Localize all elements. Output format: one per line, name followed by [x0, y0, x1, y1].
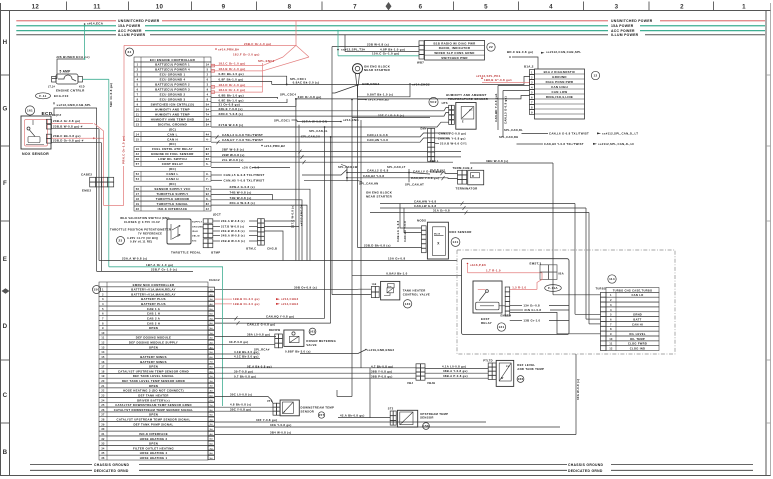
svg-text:3#: 3# [210, 342, 214, 344]
svg-text:SPL,CAN,HT: SPL,CAN,HT [405, 183, 424, 187]
svg-text:30F Y-0.8 gu): 30F Y-0.8 gu) [256, 418, 277, 422]
svg-text:CATALYST DOWNSTREAM TEMP SENSO: CATALYST DOWNSTREAM TEMP SENSOR GRND [115, 403, 192, 407]
svg-text:SPL,CAN,HN: SPL,CAN,HN [359, 182, 378, 186]
svg-text:WIRED SLP CONS GRND: WIRED SLP CONS GRND [434, 51, 474, 55]
svg-text:18J.D Or-1.0 gu): 18J.D Or-1.0 gu) [219, 83, 246, 87]
svg-text:B1A 2 DIAGNOSTIC: B1A 2 DIAGNOSTIC [544, 70, 576, 74]
svg-text:7: 7 [137, 94, 139, 97]
wire CAN.HW Y-0.8 [380, 203, 575, 205]
svg-text:TURBO: TURBO [596, 286, 607, 290]
svg-text:OPEN: OPEN [149, 413, 158, 417]
svg-text:19B.B Or-2.0 gu): 19B.B Or-2.0 gu) [233, 302, 260, 306]
svg-text:24B.B W-0.8 (s): 24B.B W-0.8 (s) [221, 239, 245, 243]
wire 29W W-0.8 [211, 156, 461, 158]
svg-text:F-11A: F-11A [548, 286, 558, 290]
svg-text:5#: 5# [210, 439, 214, 441]
wire relay pin to turbo oil level [510, 312, 601, 333]
svg-text:2#: 2# [210, 381, 214, 383]
ECD internal circuit [25, 120, 48, 147]
wire 23B W-0.8 to radio [332, 46, 419, 48]
svg-text:2#: 2# [210, 294, 214, 296]
svg-text:(DC): (DC) [169, 167, 176, 171]
svg-text:SPL,CAN,LW: SPL,CAN,LW [338, 165, 358, 169]
svg-text:18J.E Or-1.0 gu): 18J.E Or-1.0 gu) [219, 88, 246, 92]
svg-text:B: B [3, 449, 8, 456]
svg-text:32: 32 [101, 438, 105, 441]
svg-text:EXST: EXST [481, 317, 490, 321]
wire CAN.HD Y-0.8 rotated label [497, 86, 499, 131]
svg-text:6: 6 [137, 89, 139, 92]
svg-text:10: 10 [156, 4, 164, 11]
svg-text:6#: 6# [210, 357, 214, 359]
svg-text:16: 16 [136, 148, 140, 151]
svg-text:4: 4 [549, 4, 553, 11]
svg-text:CLOSES @ 0.75V ±0.3V: CLOSES @ 0.75V ±0.3V [124, 220, 160, 224]
svg-text:0.8AU Bk-1.0: 0.8AU Bk-1.0 [386, 272, 407, 276]
svg-text:CAB 2 A: CAB 2 A [147, 316, 160, 320]
svg-text:SPL,RCA#: SPL,RCA# [254, 347, 270, 351]
svg-text:8#: 8# [210, 366, 214, 368]
svg-text:23: 23 [101, 394, 105, 397]
svg-text:9#: 9# [210, 328, 214, 330]
svg-text:SIG: SIG [192, 241, 197, 243]
svg-text:5#: 5# [206, 108, 210, 111]
svg-text:22: 22 [489, 45, 493, 49]
svg-text:BATTERY+V1A,MAIN,RELAY: BATTERY+V1A,MAIN,RELAY [131, 288, 176, 292]
table B1B radio w/ diag pwr ref 22 [425, 40, 485, 60]
ground splice wire ss#12,GND,CAB,SPL [54, 108, 97, 177]
svg-text:5C2: 5C2 [430, 100, 436, 104]
svg-text:OPEN: OPEN [149, 326, 158, 330]
svg-text:UNSWITCHED POWER: UNSWITCHED POWER [118, 19, 160, 23]
svg-text:HOSE HEATING 2: HOSE HEATING 2 [140, 437, 168, 441]
svg-text:4.8 Bk-0.8 (s): 4.8 Bk-0.8 (s) [230, 402, 251, 406]
svg-text:UNSWITCHED POWER: UNSWITCHED POWER [611, 19, 653, 23]
svg-text:PH: PH [506, 366, 510, 368]
wire 26G.A W-0.8 [211, 205, 307, 260]
svg-text:CAB 1 A: CAB 1 A [147, 307, 160, 311]
svg-text:B1B RADIO W/ DIAG PWR: B1B RADIO W/ DIAG PWR [433, 41, 476, 45]
svg-text:BD.C Bk-0.8 gu): BD.C Bk-0.8 gu) [507, 50, 533, 54]
svg-text:15: 15 [136, 138, 140, 141]
splice label s#14.ECA [84, 23, 86, 25]
svg-text:SPL,ENC2: SPL,ENC2 [258, 59, 275, 63]
svg-text:BATT(ECU) POWER 3: BATT(ECU) POWER 3 [155, 88, 190, 92]
wire vertical x370 from 0E.A line down to 42.A [369, 368, 371, 418]
wire CAN.H2 Y-0.8 [347, 177, 430, 179]
svg-text:SENSOR: SENSOR [301, 409, 315, 413]
svg-text:CATALYST UPSTREAM TEMP SENSOR: CATALYST UPSTREAM TEMP SENSOR SIGNAL [117, 418, 191, 422]
svg-text:57: 57 [136, 163, 140, 166]
svg-text:29: 29 [101, 423, 105, 426]
svg-text:5#: 5# [210, 352, 214, 354]
svg-text:7: 7 [353, 4, 357, 11]
svg-text:CAN2 H: CAN2 H [166, 177, 179, 181]
svg-text:CAN HIGH: CAN HIGH [551, 85, 568, 89]
svg-text:18J.F Or-2.0 gu): 18J.F Or-2.0 gu) [233, 53, 260, 57]
svg-text:VBJ: VBJ [407, 381, 413, 385]
svg-text:4#: 4# [210, 303, 214, 306]
svg-text:15A POWER: 15A POWER [611, 24, 634, 28]
svg-text:11: 11 [136, 113, 140, 116]
wire CAN.LV G-0.8 [409, 173, 430, 175]
svg-text:AND TANK TEMP: AND TANK TEMP [517, 367, 544, 371]
svg-text:ILLUM POWER: ILLUM POWER [611, 33, 639, 37]
teal wire vertical at EMR2 right [222, 267, 224, 406]
svg-text:SPL,CAN,3L: SPL,CAN,3L [309, 129, 328, 133]
wire 4.8 Bk-0.8 [215, 406, 274, 408]
wire terminator feeds [430, 172, 458, 174]
dashed harness enclosure box [457, 250, 675, 354]
svg-text:9#: 9# [210, 415, 214, 417]
svg-text:8#: 8# [206, 203, 210, 206]
svg-text:CAN.HQ Y-0.8 gu): CAN.HQ Y-0.8 gu) [266, 314, 294, 318]
svg-text:2: 2 [680, 4, 684, 11]
svg-text:s#14,CHG2: s#14,CHG2 [281, 297, 299, 301]
svg-text:5#: 5# [210, 395, 214, 397]
svg-text:s#14,CHG2: s#14,CHG2 [281, 302, 299, 306]
svg-text:74B W-0.8 (s): 74B W-0.8 (s) [230, 196, 252, 200]
svg-text:OIL TEMP: OIL TEMP [630, 337, 645, 341]
svg-text:7#: 7# [210, 405, 214, 407]
svg-text:8#: 8# [206, 148, 210, 151]
svg-text:FUEL CNTRL ATR RELAY: FUEL CNTRL ATR RELAY [152, 147, 193, 151]
svg-text:IDLE VALIDATION SWITCH (ENG: IDLE VALIDATION SWITCH (ENG [120, 216, 170, 220]
wire 23B.D Bk-0.8 to NOx sensor 2 [358, 247, 422, 249]
left center diamond marker [2, 288, 10, 294]
wire CAN.H5 link to splice mesh [304, 180, 362, 182]
svg-text:THROTTLE PEDAL: THROTTLE PEDAL [171, 250, 201, 254]
svg-text:HTS: HTS [442, 101, 448, 105]
svg-text:19: 19 [136, 203, 140, 206]
svg-text:ISO-K INTERFACE: ISO-K INTERFACE [139, 432, 168, 436]
svg-text:9: 9 [137, 103, 139, 106]
wire 0.8AU Bk-1.0 [352, 275, 462, 277]
svg-text:0E.A Bk-0.8 gu): 0E.A Bk-0.8 gu) [247, 364, 272, 368]
inner solid enclosure box [462, 259, 570, 335]
wire 13B Gr-1.0 [510, 320, 522, 322]
svg-text:5#: 5# [206, 103, 210, 106]
table turbo charge case ref 114 [608, 275, 616, 283]
svg-text:CAN,HW Y-0.8: CAN,HW Y-0.8 [414, 200, 436, 204]
relay EXST ref 121 [473, 281, 502, 313]
wires VBJ to DEF level sensor [425, 367, 488, 369]
connector BTM.C / CHG.B [258, 219, 261, 223]
svg-text:CAN.HU Y-0.8: CAN.HU Y-0.8 [403, 221, 407, 242]
svg-text:TB6,L: TB6,L [430, 159, 439, 163]
wire 4.1B Bk-2.0 [215, 353, 261, 355]
svg-text:CAN.HD Y-0.8 gu1: CAN.HD Y-0.8 gu1 [494, 93, 498, 122]
svg-text:ss#12,SPL,T3#: ss#12,SPL,T3# [341, 48, 365, 52]
svg-text:F1(F#: F1(F# [52, 113, 62, 117]
svg-text:30-T-0.8 gu): 30-T-0.8 gu) [234, 369, 253, 373]
svg-text:27: 27 [101, 414, 105, 417]
svg-text:EMST,4: EMST,4 [501, 314, 512, 318]
svg-text:1B7.A Or-1.0 gu): 1B7.A Or-1.0 gu) [146, 263, 173, 267]
svg-text:23B.A Gr-0.8 gu): 23B.A Gr-0.8 gu) [53, 119, 80, 123]
wire CAN.H6 Y-0.8 TXL/TWIST [517, 143, 544, 145]
svg-text:8#: 8# [210, 453, 214, 455]
svg-text:3: 3 [137, 74, 139, 77]
wire 23B.D Or-0.8 [52, 142, 102, 144]
wire 0.8E Bk-1.0 [211, 99, 287, 103]
wire CAN drops to NOx sensor 2 [400, 204, 422, 229]
svg-text:9: 9 [222, 4, 226, 11]
wires throttle pedal to connector BTM.C/CHG.B [213, 220, 220, 222]
svg-text:OPEN: OPEN [149, 345, 158, 349]
component EMR2 NOx controller ref 150 [93, 286, 101, 294]
svg-text:CAN.L3 G-0.8 gu): CAN.L3 G-0.8 gu) [504, 96, 508, 124]
svg-text:C: C [3, 392, 8, 399]
svg-text:VALID: VALID [192, 235, 200, 238]
svg-text:H: H [3, 39, 8, 46]
svg-text:IDLE: IDLE [192, 231, 198, 233]
svg-text:23B.C Bk-0.8 gu): 23B.C Bk-0.8 gu) [53, 134, 81, 138]
svg-text:DEF DOSING MODULE SUPPLY: DEF DOSING MODULE SUPPLY [129, 341, 178, 345]
svg-text:CAN,LG G-0.8 gu): CAN,LG G-0.8 gu) [247, 322, 275, 326]
svg-text:BATTERY MINUS: BATTERY MINUS [140, 360, 167, 364]
wire 22B.F Gr-1.0 [97, 270, 193, 272]
svg-text:28: 28 [101, 419, 105, 422]
svg-text:4: 4 [207, 94, 209, 97]
wire CAN.L5 link to splice mesh [302, 170, 347, 176]
svg-text:8: 8 [288, 4, 292, 11]
fuse reference oval F-11 [36, 93, 51, 99]
svg-text:163: 163 [310, 330, 316, 334]
sensor humidity and ambient temperature ref 5C2 [429, 97, 438, 106]
svg-text:D: D [3, 323, 8, 330]
wire vertical x324.6 down to EMR2 CAN.HD [324, 127, 326, 318]
svg-text:VT3: VT3 [267, 399, 273, 403]
svg-text:38B.A Y-0.8 gu): 38B.A Y-0.8 gu) [443, 369, 468, 373]
svg-text:HUMIDITY AND TEMP: HUMIDITY AND TEMP [155, 107, 190, 111]
svg-text:2: 2 [207, 74, 209, 77]
svg-text:9: 9 [207, 89, 209, 92]
svg-text:LT,J#: LT,J# [48, 86, 56, 89]
wire s#14,PRN,B2 splice stub [358, 99, 367, 101]
wire 42.A Bk-0.8 to upstream sensor [338, 417, 390, 419]
top center diamond marker [386, 2, 392, 10]
svg-text:4#: 4# [210, 433, 214, 436]
svg-text:30C Y-0.8 gu): 30C Y-0.8 gu) [230, 407, 251, 411]
svg-text:7#: 7# [206, 188, 210, 191]
svg-text:CAN,H6 Y-0.8 TXL/TWIST: CAN,H6 Y-0.8 TXL/TWIST [544, 142, 584, 146]
svg-text:25: 25 [101, 404, 105, 407]
svg-text:DEF TANK LEVEL SIGNAL: DEF TANK LEVEL SIGNAL [133, 374, 174, 378]
svg-text:GROUND: GROUND [552, 75, 567, 79]
svg-text:SPL,CAN,3H: SPL,CAN,3H [301, 134, 320, 138]
svg-text:158: 158 [423, 424, 429, 428]
svg-text:18J.B Or-1.0 gu): 18J.B Or-1.0 gu) [219, 67, 246, 71]
svg-text:30: 30 [101, 428, 105, 431]
svg-text:FILTER OUTLET HEATING: FILTER OUTLET HEATING [133, 446, 174, 450]
svg-text:SENSOR SUPPLY VCC: SENSOR SUPPLY VCC [154, 187, 191, 191]
svg-text:31N Gr-0.8: 31N Gr-0.8 [524, 308, 541, 312]
wire 15A.C Gr-1.0 to radio (from ACC bus, teal) [337, 31, 339, 56]
svg-text:CATALYST UPSTREAM TEMP SENSOR: CATALYST UPSTREAM TEMP SENSOR GRND [118, 369, 189, 373]
svg-text:7-: 7- [206, 178, 209, 181]
wire s3A Gr-0.8 [211, 167, 240, 169]
svg-text:4.1C Bk-2.0 gu): 4.1C Bk-2.0 gu) [234, 355, 259, 359]
svg-text:4.7 Bk-0.8 gu): 4.7 Bk-0.8 gu) [371, 364, 393, 368]
svg-text:BTM,C: BTM,C [246, 246, 256, 250]
bus DEDICATED GRND [30, 469, 92, 471]
wire 31 Or-0.8 to SPL.CDC4 [211, 105, 296, 107]
svg-text:NODS: NODS [417, 219, 426, 223]
svg-text:R: R [472, 174, 474, 178]
svg-text:31: 31 [101, 433, 105, 436]
wire diag CAN LOW to vertical [503, 90, 530, 92]
svg-text:3#: 3# [206, 123, 210, 126]
wire 30-P-0.8 to doser valve [215, 343, 276, 345]
wire 18J.C Or-1.0 (red) [211, 65, 263, 67]
wires from CHG.B down [264, 220, 295, 222]
wire 30C Y-0.8 [215, 410, 274, 412]
can mesh verticals [346, 167, 348, 182]
connector TB6 [428, 128, 432, 133]
svg-text:16: 16 [101, 361, 105, 364]
svg-text:5#: 5# [210, 309, 214, 311]
svg-text:14: 14 [101, 351, 105, 354]
svg-text:CABE2: CABE2 [81, 172, 92, 176]
wire ring to vertical x332 [332, 85, 358, 93]
svg-text:HUMIDITY AMB TEMP GND: HUMIDITY AMB TEMP GND [151, 117, 195, 121]
svg-text:12: 12 [32, 4, 40, 11]
svg-text:0.8C Bk-1.0 gu): 0.8C Bk-1.0 gu) [219, 72, 244, 76]
svg-text:18J.C Or-1.0 gu): 18J.C Or-1.0 gu) [219, 62, 246, 66]
svg-text:3: 3 [207, 84, 209, 87]
svg-text:4.25V ±4.7V (0# B#)(: 4.25V ±4.7V (0# B#)( [127, 236, 158, 240]
svg-text:DEF TANK HEATER: DEF TANK HEATER [138, 393, 169, 397]
svg-text:ECU GROUND 2: ECU GROUND 2 [160, 93, 186, 97]
svg-text:42.A Bk-0.8 gu): 42.A Bk-0.8 gu) [340, 414, 365, 418]
svg-text:s#14,CHG2: s#14,CHG2 [412, 82, 430, 86]
svg-text:5#: 5# [206, 118, 210, 121]
ECD pins [47, 119, 52, 123]
svg-text:BATT(ECU) POWER 2: BATT(ECU) POWER 2 [155, 83, 190, 87]
svg-text:33: 33 [101, 443, 105, 446]
svg-text:ECU GROUND 3: ECU GROUND 3 [160, 98, 186, 102]
svg-text:DIAG POSN PWR: DIAG POSN PWR [546, 80, 574, 84]
svg-text:B1A,2: B1A,2 [524, 65, 534, 69]
wire vertical x330.6 down to EMR2 CAB.LN [330, 137, 332, 323]
svg-text:SPL,EDC1: SPL,EDC1 [274, 119, 290, 123]
wire CAN.L3 G-0.8 TXL/TWIST [211, 133, 428, 137]
svg-text:CAN,HN Y-0.8: CAN,HN Y-0.8 [367, 138, 388, 142]
svg-text:ECI ENGINE CONTROLLER: ECI ENGINE CONTROLLER [150, 58, 196, 62]
svg-text:RING,ISO,9,LINE: RING,ISO,9,LINE [546, 95, 573, 99]
wire 30A W-0.8 vertical below dashed box [575, 354, 577, 435]
bus ILLUM POWER (black) [16, 34, 116, 36]
svg-text:23: 23 [119, 239, 123, 243]
svg-text:s#14,ECA: s#14,ECA [87, 22, 104, 26]
svg-text:BATTERY MINUS: BATTERY MINUS [140, 355, 167, 359]
svg-text:CAN H: CAN H [167, 137, 178, 141]
svg-text:0.8B Bk-1.0 gu): 0.8B Bk-1.0 gu) [219, 93, 244, 97]
bus ACC POWER (teal) [16, 30, 116, 32]
svg-text:6#: 6# [210, 314, 214, 316]
svg-text:3#: 3# [210, 299, 214, 301]
svg-text:NEAR STARTER: NEAR STARTER [366, 194, 393, 198]
wire 23B.A Gr-0.8 (red) [52, 122, 94, 124]
svg-text:23W.A G-0.8 (s): 23W.A G-0.8 (s) [230, 185, 255, 189]
svg-text:1#: 1# [210, 376, 214, 378]
svg-text:SUPPLY: SUPPLY [192, 221, 203, 223]
svg-text:SWITCHED IGN CNTRL(15): SWITCHED IGN CNTRL(15) [151, 102, 195, 106]
svg-text:21: 21 [101, 385, 105, 388]
svg-text:RADIO, INDICATOR: RADIO, INDICATOR [439, 46, 471, 50]
wire 24L W-0.8 [211, 161, 453, 163]
svg-text:s#112,ENG,D#: s#112,ENG,D# [300, 204, 304, 226]
svg-text:CAN,L2 G-0.8: CAN,L2 G-0.8 [367, 169, 389, 173]
svg-text:166: 166 [518, 377, 524, 381]
svg-text:30A W-0.8 (s): 30A W-0.8 (s) [576, 379, 580, 400]
svg-text:THROTTLE SUPPLY: THROTTLE SUPPLY [156, 192, 188, 196]
wire 13A Gr-0.8 relay to right [510, 305, 522, 307]
svg-text:7#: 7# [210, 318, 214, 320]
svg-text:18: 18 [136, 198, 140, 201]
svg-text:0.8BF Bk-3.0 (s): 0.8BF Bk-3.0 (s) [285, 349, 311, 353]
svg-text:CATALYST DOWNSTREAM TEMP SENSO: CATALYST DOWNSTREAM TEMP SENSOR SIGNAL [114, 408, 194, 412]
svg-text:19B.B Or-2.0 gu): 19B.B Or-2.0 gu) [233, 297, 260, 301]
wire CAN.HN Y-0.8 [435, 137, 449, 139]
wire 4.1C Bk-2.0 [215, 358, 261, 360]
wire diag CAN HIGH to vertical [498, 85, 530, 87]
svg-text:OIL LEVEL: OIL LEVEL [629, 332, 646, 336]
svg-text:7#: 7# [206, 113, 210, 116]
svg-text:7#: 7# [210, 448, 214, 450]
svg-text:PRN.C Or-1.0 gu): PRN.C Or-1.0 gu) [122, 136, 126, 164]
svg-text:CAN HI: CAN HI [632, 322, 643, 326]
wire CAN.H5 Y-0.8 TXL/TWIST [211, 179, 222, 181]
svg-text:28: 28 [136, 208, 140, 211]
svg-text:30B Or-0.9 (s): 30B Or-0.9 (s) [294, 285, 317, 289]
svg-text:EMG2: EMG2 [82, 188, 91, 192]
svg-text:ss#19,GND,ENG2: ss#19,GND,ENG2 [367, 348, 395, 352]
svg-text:CAN LO: CAN LO [631, 293, 643, 297]
svg-text:24E.A W-0.8 (s): 24E.A W-0.8 (s) [221, 219, 245, 223]
wire vertical x352 down to upstream sensor region [351, 100, 353, 397]
svg-text:SWITCHED PWR: SWITCHED PWR [441, 56, 468, 60]
svg-text:2#: 2# [206, 208, 210, 211]
wire CAN.L6 G-0.8 TXL/TWIST [522, 133, 549, 135]
svg-text:19: 19 [101, 375, 105, 378]
svg-text:DIGITAL GROUND: DIGITAL GROUND [158, 122, 187, 126]
svg-text:ss#112,SPL,CAN,JL,HI: ss#112,SPL,CAN,JL,HI [598, 142, 634, 146]
wire 0.8C Bk-1.0 [211, 76, 287, 84]
svg-text:SPL,CDC4: SPL,CDC4 [280, 93, 296, 97]
wire 0.8AT Bk-1.0 [358, 85, 411, 97]
splice ss#12,SPL,T3# [337, 49, 339, 51]
wire 23B.C Bk-0.8 (red) [52, 137, 104, 139]
wire 74B W-0.8 second [211, 200, 302, 261]
svg-text:TERM,CAB,2: TERM,CAB,2 [453, 166, 473, 170]
red feed cluster from unswitched bus to ECI power pins [295, 21, 297, 46]
svg-text:CHG12: CHG12 [209, 278, 220, 282]
wire teal horizontal 1B7.A to EMR2 [109, 266, 223, 268]
svg-text:CAN L: CAN L [167, 132, 177, 136]
svg-text:DEDICATED GRND: DEDICATED GRND [94, 469, 129, 473]
svg-text:11: 11 [101, 337, 104, 340]
svg-text:(DC): (DC) [169, 142, 176, 146]
svg-text:F-11: F-11 [39, 94, 46, 98]
svg-text:SPL,CAN,DL: SPL,CAN,DL [504, 128, 523, 132]
svg-text:HOSE HEATING 3 (DO NOT CONNECT: HOSE HEATING 3 (DO NOT CONNECT) [123, 389, 184, 393]
svg-text:13# Gr-0.8: 13# Gr-0.8 [523, 304, 540, 308]
svg-text:WB7: WB7 [417, 61, 424, 65]
svg-text:HOSE HEATING 4: HOSE HEATING 4 [140, 451, 168, 455]
svg-text:30-P-0.8 gu): 30-P-0.8 gu) [229, 340, 248, 344]
